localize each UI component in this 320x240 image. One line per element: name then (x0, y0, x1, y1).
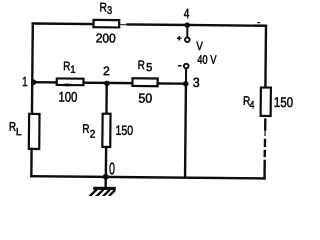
wire R1 to R5 (84, 82, 132, 85)
svg-text:50: 50 (138, 91, 152, 106)
wire node 1 to R1 (32, 81, 56, 84)
resistor R5 (132, 78, 157, 86)
+ terminal of source V (185, 37, 190, 42)
plus sign (178, 37, 181, 39)
svg-text:V: V (196, 39, 203, 53)
svg-text:150: 150 (115, 123, 133, 138)
resistor R2 (102, 114, 110, 147)
wire left vertical (top corner to RL) (31, 24, 34, 114)
wire R5 to node 3 (158, 82, 186, 85)
svg-text:4: 4 (184, 6, 190, 21)
ground (90, 188, 114, 196)
wire node 4 to top right corner (187, 24, 266, 27)
svg-text:2: 2 (103, 64, 110, 78)
wire R4 to bottom right corner (thin, scan-broken) (264, 120, 266, 130)
wire top left segment (left corner to R3) (33, 22, 93, 25)
node 1 (31, 79, 36, 84)
svg-text:100: 100 (58, 89, 77, 105)
svg-text:1: 1 (22, 74, 28, 89)
wire right vertical top (corner to R4) (264, 26, 267, 88)
svg-text:L: L (16, 127, 22, 138)
svg-text:3: 3 (193, 75, 200, 90)
wire R2 to node 0 (105, 147, 108, 177)
node 3 (183, 81, 189, 87)
wire RL to bottom wire (30, 149, 33, 176)
wire node 2 down to R2 (105, 83, 108, 114)
svg-text:200: 200 (96, 30, 116, 45)
node 0 (103, 174, 109, 180)
svg-text:150: 150 (274, 94, 294, 110)
node 4 (184, 22, 190, 28)
wire top right of R3 (small scan tick) (121, 24, 128, 26)
svg-text:R: R (99, 0, 107, 14)
resistor R3 (93, 20, 119, 28)
resistor R4 (261, 88, 271, 116)
resistor RL (29, 114, 40, 149)
svg-text:R: R (138, 58, 145, 72)
svg-text:0: 0 (109, 160, 115, 178)
svg-text:1: 1 (70, 65, 76, 76)
wire node4 stub to + terminal (186, 25, 188, 37)
node 2 (104, 81, 110, 87)
minus sign (179, 65, 181, 67)
- terminal of source V (184, 64, 189, 69)
svg-text:4: 4 (249, 99, 254, 111)
svg-text:R: R (82, 122, 89, 136)
wire node 0 to ground (104, 177, 107, 188)
wire bottom (31, 176, 264, 178)
wire R3 to node 4 (128, 23, 188, 26)
scan smudge in R1 box (64, 84, 70, 87)
svg-text:40 V: 40 V (197, 53, 217, 67)
svg-text:3: 3 (107, 5, 112, 17)
wire - terminal to node 3 (185, 68, 187, 83)
svg-text:2: 2 (90, 128, 96, 140)
scan tick on top wire (257, 22, 260, 23)
resistor R1 (57, 78, 84, 85)
wire node 3 down to bottom (184, 84, 187, 178)
svg-text:5: 5 (146, 62, 152, 74)
